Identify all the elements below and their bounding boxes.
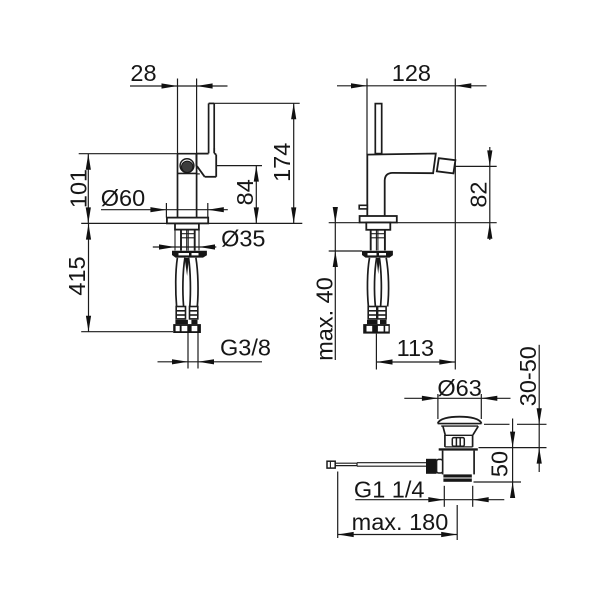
svg-text:84: 84 [232, 179, 258, 205]
dim O63 arrow left [422, 396, 438, 401]
hose gap wedge [185, 258, 189, 276]
aerator face (dark) [182, 161, 193, 172]
dim G1 1/4 dimension line [355, 499, 504, 501]
svg-text:G1 1/4: G1 1/4 [354, 476, 425, 502]
dim 28 arrow right [197, 83, 213, 88]
rod clamp nut (dark) [426, 459, 437, 474]
plug bottom tick line [484, 423, 510, 425]
hose collars [175, 320, 197, 324]
G3/8 threaded tails [188, 333, 198, 369]
dim 101 dimension line [87, 154, 89, 224]
svg-text:415: 415 [64, 256, 90, 295]
spout block (tilted) [437, 158, 456, 173]
dim G1 1/4 arrow right [473, 497, 489, 502]
dim 128 extension line left [366, 79, 368, 155]
dim 101 extension line top [79, 153, 178, 155]
svg-text:max. 180: max. 180 [352, 509, 449, 535]
dim O60 arrow right [208, 207, 224, 212]
handle lever bar [209, 103, 215, 153]
dim G1 1/4 extension line left [443, 486, 445, 507]
dim O63 extension line left [437, 394, 439, 419]
dim 415 extension line bottom [81, 331, 173, 333]
hose end fittings (ribbed) [176, 307, 198, 319]
svg-text:50: 50 [487, 451, 513, 477]
dim 113 arrow left [377, 359, 393, 364]
dim max180 dimension line [338, 534, 458, 536]
drain lower body [443, 451, 475, 475]
dim G1 1/4 extension line right [472, 486, 474, 507]
dim 113 dimension line [377, 361, 456, 363]
dim O35 arrow left [159, 244, 175, 249]
svg-text:113: 113 [397, 335, 434, 361]
svg-text:max. 40: max. 40 [312, 277, 338, 361]
dim 28 dimension line [130, 85, 228, 87]
rod end cap [327, 461, 335, 468]
dim 30-50 arrow up [537, 448, 542, 464]
dim G1 1/4 arrow left [428, 497, 444, 502]
sink flange bar [439, 448, 478, 450]
dim O60 extension line right [207, 203, 209, 218]
right view hex nuts [363, 324, 390, 334]
dim 28 extension line left [177, 79, 179, 154]
faucet body column [178, 154, 197, 218]
dim 84 arrow up [254, 166, 259, 182]
dim O63 arrow right [481, 396, 497, 401]
handle grip [196, 148, 216, 177]
mounting washer (dark) [172, 251, 207, 258]
mounting shank [175, 223, 199, 229]
dim 50 arrow up [510, 482, 515, 498]
valve tailpiece [181, 230, 195, 251]
dim 50 dimension line [512, 419, 514, 498]
dim G3/8 dimension line [158, 361, 263, 363]
dim 82 arrow bottom [487, 223, 492, 239]
faucet body L-shape [367, 154, 436, 217]
dim G3/8 arrow right [198, 359, 214, 364]
dim O63 dimension line [404, 397, 510, 399]
dim 128 arrow left [351, 83, 367, 88]
dim 415 arrow up [86, 224, 91, 240]
centerline below nuts / dim 113 left extension [375, 334, 377, 370]
dim 128 arrow right [455, 83, 471, 88]
dim 415 arrow down [86, 316, 91, 332]
dim 84 extension line top [217, 165, 262, 167]
dim 415 dimension line [88, 223, 90, 331]
dim O35 extension line right [198, 230, 200, 251]
counter extension line right-view right [397, 222, 497, 224]
dim 174 arrow down [291, 207, 296, 223]
long extension line right (spout tip) [454, 79, 456, 370]
dim 128 dimension line [337, 85, 487, 87]
dim 101 arrow up [86, 154, 91, 170]
svg-text:G3/8: G3/8 [220, 335, 271, 361]
dim 84 dimension line [255, 166, 257, 224]
dim 84 arrow down [254, 207, 259, 223]
right view hose fittings [368, 307, 386, 319]
svg-text:101: 101 [66, 169, 92, 208]
pop-up rod knob [359, 205, 367, 209]
svg-text:82: 82 [465, 182, 491, 208]
dim O60 dimension line [101, 209, 228, 211]
dim max180 extension line right [456, 505, 458, 540]
dim max40 dimension line [334, 207, 336, 360]
right view flange [360, 216, 397, 223]
dim O60 extension line left [165, 203, 167, 218]
right view valve tube [371, 230, 385, 251]
dim 113 arrow right [439, 359, 455, 364]
dim G3/8 arrow left [172, 359, 188, 364]
dim 82 dimension line [489, 147, 491, 240]
svg-text:Ø35: Ø35 [221, 225, 265, 251]
svg-text:Ø60: Ø60 [101, 185, 145, 211]
dim max40 extension line bottom [329, 250, 362, 252]
plug neck [443, 426, 478, 435]
handle rod [375, 104, 381, 154]
dim 174 dimension line [293, 103, 295, 223]
dim 30-50 arrow down [537, 408, 542, 424]
drain upper body [445, 435, 473, 447]
pipe bottom extension line [474, 481, 522, 483]
rod joint collar [437, 459, 443, 473]
dim 101 arrow down [86, 207, 91, 223]
dim max180 arrow left [338, 532, 354, 537]
right view washer (dark) [362, 251, 393, 258]
dim O63 extension line right [480, 394, 482, 419]
counter extension line right (shared by 84/174) [208, 222, 302, 224]
dim 28 arrow left [162, 83, 178, 88]
flange extension line [479, 447, 547, 449]
dim 174 arrow up [291, 103, 296, 119]
dim 50 arrow down [510, 432, 515, 448]
dim 174 extension line top [214, 102, 300, 104]
svg-text:28: 28 [130, 60, 156, 86]
plug dome bottom [438, 423, 482, 425]
hex nuts [173, 324, 201, 333]
dim 101 extension line bottom / counter left [81, 222, 167, 224]
dim O35 extension line left [174, 230, 176, 251]
dim max180 extension line left [337, 472, 339, 539]
overflow window [452, 438, 464, 447]
right view shank [366, 223, 390, 230]
plug dome [438, 417, 482, 424]
dim max180 arrow right [441, 532, 457, 537]
dim 82 arrow top [487, 150, 492, 166]
svg-text:30-50: 30-50 [515, 346, 541, 406]
dim O35 arrow right [199, 244, 215, 249]
dim 28 extension line right [196, 79, 198, 154]
dim max40 arrow bottom [333, 251, 338, 267]
plug dome lower rim [441, 425, 478, 427]
right view collars [367, 320, 387, 324]
aerator housing bottom line [178, 172, 197, 174]
dim O35 dimension line [153, 246, 217, 248]
dim 30-50 dimension line [538, 345, 540, 472]
dim O60 arrow left [150, 207, 166, 212]
pop-up rod [335, 463, 426, 467]
threaded tailpiece G1 1/4 [443, 474, 471, 481]
dim max40 arrow top [333, 207, 338, 223]
dim 82 extension line top [455, 165, 496, 167]
svg-text:Ø63: Ø63 [437, 375, 481, 401]
supply hoses [176, 258, 198, 307]
svg-text:128: 128 [392, 60, 431, 86]
svg-text:174: 174 [269, 143, 295, 182]
counter extension line right-view left [329, 222, 360, 224]
base flange [167, 218, 208, 224]
right view hose wedge [376, 258, 380, 274]
aerator outer ring [180, 159, 194, 173]
right view hoses [367, 258, 388, 307]
aerator housing top line [178, 153, 197, 155]
